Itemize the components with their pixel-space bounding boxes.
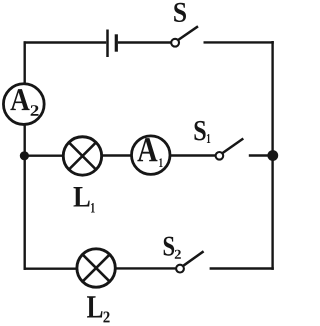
label L2 subscript 2 [103, 312, 109, 323]
ammeter A1 letter A [137, 138, 157, 161]
ammeter A1 circle [132, 136, 171, 175]
switch S pivot circle [171, 39, 179, 47]
wire bottom-left to lamp L2 [24, 268, 78, 270]
label S [174, 3, 186, 22]
ammeter A1 subscript 1 [159, 158, 162, 167]
wire switch S to top-right corner [204, 41, 274, 43]
ammeter A2 subscript 2 [31, 105, 39, 116]
lamp L1 circle [63, 137, 101, 175]
ammeter A2 letter A [10, 89, 29, 110]
wire lamp L1 to ammeter A1 [102, 154, 132, 156]
wire left vertical bottom [24, 124, 26, 270]
node junction dot left [20, 151, 29, 160]
battery short plate [115, 34, 118, 51]
label S2 subscript 2 [175, 250, 181, 259]
lamp L1 cross stroke 2 [69, 142, 96, 169]
switch S1 pivot circle [216, 152, 224, 160]
battery long plate [106, 30, 109, 58]
node junction dot right [267, 150, 278, 161]
switch S lever open [178, 26, 198, 40]
lamp L2 cross stroke 2 [83, 254, 110, 281]
label L2 letter L [87, 296, 102, 317]
wire S2 to bottom-right corner [210, 267, 274, 269]
lamp L2 cross stroke 1 [83, 254, 110, 281]
ammeter A2 circle [3, 84, 44, 125]
wire L2 to switch S2 [115, 267, 176, 269]
wire top-left horizontal [24, 41, 107, 43]
label L1 letter L [73, 187, 89, 206]
wire S1 to right junction [249, 154, 273, 156]
switch S2 pivot circle [176, 265, 184, 273]
switch S1 lever open [223, 139, 244, 154]
label L1 subscript 1 [91, 203, 95, 212]
label S2 letter S [164, 237, 174, 256]
wire battery to switch S [118, 41, 171, 43]
switch S2 lever open [183, 251, 203, 265]
wire A1 to switch S1 [170, 154, 216, 156]
lamp L2 circle [77, 249, 115, 287]
lamp L1 cross stroke 1 [69, 142, 96, 169]
label S1 subscript 1 [207, 134, 210, 143]
wire left vertical top [24, 41, 26, 84]
wire right vertical [271, 41, 273, 270]
wire junction to lamp L1 [25, 154, 64, 156]
label S1 letter S [195, 121, 206, 141]
